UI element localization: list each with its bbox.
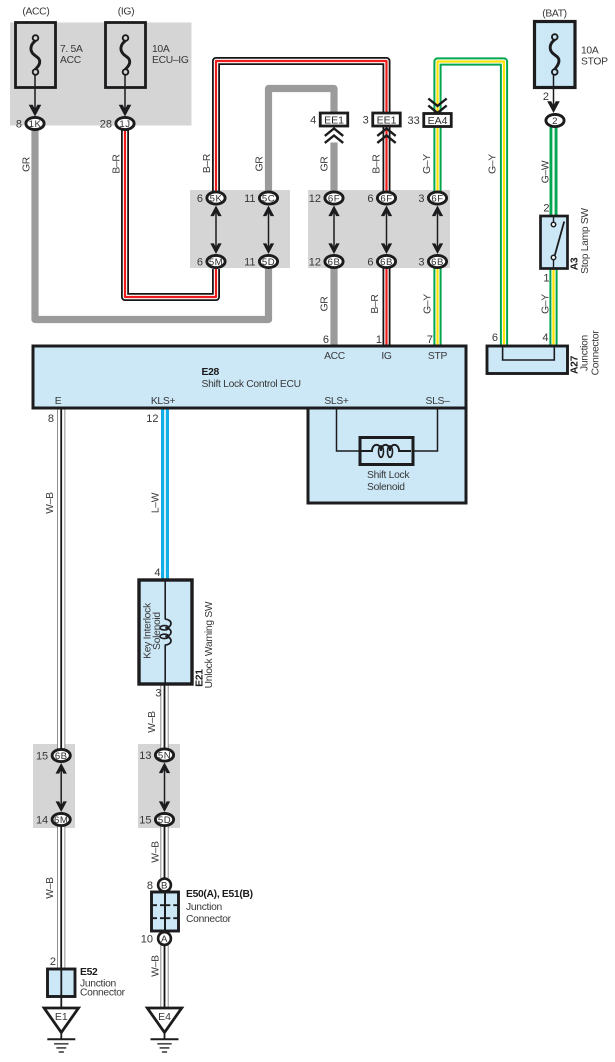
arrow ACC fuse to 1K	[29, 75, 42, 117]
svg-text:6: 6	[492, 332, 498, 344]
svg-text:(IG): (IG)	[118, 7, 135, 18]
svg-text:4: 4	[542, 332, 548, 344]
svg-text:EA4: EA4	[428, 115, 448, 127]
svg-text:13: 13	[139, 750, 151, 762]
stop lamp switch A3 box	[541, 216, 568, 269]
svg-text:2: 2	[50, 956, 56, 968]
wire G-Y from EA4 to 6F	[433, 128, 441, 193]
svg-text:4: 4	[310, 115, 316, 127]
svg-text:8: 8	[48, 413, 54, 425]
svg-text:W–B: W–B	[45, 492, 56, 514]
svg-text:6: 6	[323, 334, 329, 346]
connector block shading (5K/5C 5M/5D)	[190, 190, 290, 268]
svg-text:Connector: Connector	[186, 914, 232, 925]
svg-text:7. 5A: 7. 5A	[60, 44, 83, 55]
svg-text:3: 3	[418, 193, 424, 205]
svg-text:G–Y: G–Y	[541, 294, 552, 314]
connector EE1 (pin 3)	[363, 113, 401, 127]
arrow STOP fuse to connector 2	[547, 75, 560, 113]
svg-text:Connector: Connector	[591, 330, 602, 376]
wire G-Y from stop lamp switch to A27 pin 4	[549, 268, 557, 346]
svg-text:A: A	[161, 934, 168, 945]
wire B-R from 5K to EE1	[216, 61, 387, 192]
svg-text:5D: 5D	[158, 815, 171, 826]
connector 6B (1)	[309, 255, 343, 268]
svg-text:GR: GR	[255, 157, 266, 172]
ECU E28 box	[33, 346, 466, 408]
svg-text:Stop Lamp SW: Stop Lamp SW	[580, 208, 591, 274]
svg-text:1K: 1K	[29, 119, 42, 130]
double arrow 6F-6B (3)	[432, 206, 443, 255]
connector 2 under STOP fuse	[546, 114, 564, 127]
E50/E51 center line	[164, 892, 166, 931]
svg-text:1J: 1J	[119, 119, 130, 130]
svg-text:6B: 6B	[328, 257, 341, 268]
svg-text:W–B: W–B	[151, 841, 162, 863]
connector 5K	[197, 192, 225, 205]
svg-text:12: 12	[309, 193, 321, 205]
svg-text:G–Y: G–Y	[422, 154, 433, 174]
svg-text:5K: 5K	[210, 194, 223, 205]
svg-text:B: B	[161, 880, 168, 891]
E21 coil	[165, 619, 171, 645]
shift lock solenoid housing	[308, 408, 466, 503]
svg-text:12: 12	[146, 413, 158, 425]
svg-text:3: 3	[418, 257, 424, 269]
arrow IG fuse to 1J	[119, 75, 132, 117]
connector 6F (2)	[367, 192, 395, 205]
svg-text:W–B: W–B	[147, 711, 158, 733]
A27 internal bus	[503, 348, 555, 361]
wire GR from 1K to 5D	[35, 130, 269, 320]
connector 5D	[244, 255, 278, 268]
svg-text:12: 12	[309, 257, 321, 269]
wire W-B from E28 pin E to 6B	[57, 408, 65, 749]
wire B-R from EE1 chevron to 6F	[383, 126, 391, 192]
svg-text:SLS+: SLS+	[324, 396, 349, 407]
svg-text:Unlock Warning SW: Unlock Warning SW	[204, 601, 215, 688]
wire B-R from 6B to E28 IG	[383, 268, 391, 346]
svg-text:10A: 10A	[152, 44, 170, 55]
svg-text:6M: 6M	[54, 815, 68, 826]
wire W-B from junction A to E4 ground	[160, 945, 168, 1008]
svg-text:3: 3	[363, 115, 369, 127]
connector block shading (top left)	[10, 23, 192, 126]
svg-text:2: 2	[552, 116, 558, 127]
wire SLS+ to solenoid	[337, 409, 362, 451]
svg-text:10A: 10A	[581, 46, 599, 57]
svg-text:GR: GR	[320, 157, 331, 172]
connector 6B lower	[36, 749, 70, 762]
svg-text:5D: 5D	[262, 257, 275, 268]
svg-text:6B: 6B	[431, 257, 444, 268]
svg-text:6F: 6F	[431, 194, 443, 205]
connector 6B (3)	[418, 255, 446, 268]
svg-text:10: 10	[141, 934, 153, 946]
ground E4	[147, 1008, 181, 1052]
double arrow 5N-5D lower mid	[159, 763, 170, 813]
junction connector E50/E51 box	[152, 892, 179, 931]
chevron under EE1 pin 4	[325, 129, 343, 143]
svg-text:Shift Lock Control ECU: Shift Lock Control ECU	[202, 379, 301, 390]
svg-text:1: 1	[376, 334, 382, 346]
svg-text:2: 2	[543, 203, 549, 215]
svg-text:KLS+: KLS+	[151, 396, 176, 407]
svg-text:2: 2	[543, 91, 549, 103]
double arrow 6F-6B (2)	[381, 206, 392, 255]
svg-text:STP: STP	[428, 351, 448, 362]
ground E1	[44, 1008, 78, 1052]
svg-text:(BAT): (BAT)	[542, 9, 567, 20]
svg-text:Junction: Junction	[186, 902, 223, 913]
svg-text:11: 11	[244, 193, 255, 205]
connector 5C	[244, 192, 278, 205]
connector block shading (6F/6B)	[308, 190, 450, 268]
svg-text:E1: E1	[55, 1011, 68, 1023]
chevron above EA4	[428, 99, 446, 113]
svg-text:GR: GR	[320, 297, 331, 312]
svg-text:1: 1	[543, 273, 549, 285]
svg-text:G–Y: G–Y	[423, 294, 434, 314]
wire GR from EE1 chevron to 6F	[330, 143, 337, 193]
svg-text:Shift Lock: Shift Lock	[367, 470, 410, 481]
double arrow 6F-6B (1)	[328, 206, 339, 255]
connector 1J	[100, 117, 134, 130]
E21 internal wire top	[164, 580, 166, 620]
svg-text:7: 7	[427, 334, 433, 346]
svg-text:6: 6	[367, 257, 373, 269]
connector 1K	[16, 117, 44, 130]
svg-text:ACC: ACC	[324, 351, 346, 362]
svg-text:8: 8	[147, 880, 153, 892]
svg-text:E28: E28	[202, 367, 220, 378]
svg-text:E52: E52	[80, 967, 98, 978]
E52 to ground wire	[60, 997, 62, 1009]
svg-text:Solenoid: Solenoid	[152, 612, 163, 650]
wire G-W from fuse 2 to stop lamp switch	[550, 127, 558, 216]
svg-text:3: 3	[155, 688, 161, 700]
fuse 7.5A ACC	[16, 23, 56, 88]
fuse 10A STOP	[535, 22, 576, 88]
svg-text:5M: 5M	[209, 257, 223, 268]
connector 5M	[197, 255, 225, 268]
svg-text:EE1: EE1	[377, 114, 397, 126]
E50/E51 dashed row line 1	[153, 904, 178, 906]
wire L-W from E28 KLS+ to E21	[161, 408, 169, 580]
svg-text:Solenoid: Solenoid	[367, 482, 405, 493]
wire G-Y from EA4 up and over to A27 pin 6	[438, 62, 505, 347]
fuse 10A ECU-IG	[106, 23, 146, 88]
connector 6M lower	[36, 813, 70, 826]
connector 6F (1)	[309, 192, 343, 205]
solenoid component box	[360, 438, 413, 465]
svg-text:6F: 6F	[380, 194, 392, 205]
E21 internal wire bottom	[164, 645, 166, 685]
svg-text:W–B: W–B	[45, 877, 56, 899]
connector 5D lower	[139, 813, 173, 826]
svg-text:B–R: B–R	[112, 154, 123, 173]
connector EE1 (pin 4)	[310, 113, 348, 127]
junction connector A27 box	[487, 346, 568, 374]
svg-text:E4: E4	[158, 1011, 171, 1023]
svg-text:14: 14	[36, 815, 48, 827]
svg-text:8: 8	[16, 119, 22, 131]
svg-text:33: 33	[408, 115, 420, 127]
svg-text:Connector: Connector	[80, 988, 126, 999]
wire W-B from 5D to junction B	[160, 826, 168, 878]
svg-text:GR: GR	[22, 157, 33, 172]
svg-text:4: 4	[154, 567, 160, 579]
svg-text:E50(A), E51(B): E50(A), E51(B)	[186, 889, 253, 900]
solenoid coil	[362, 445, 412, 451]
connector block shading (6B/6M lower left)	[33, 744, 75, 828]
svg-text:15: 15	[139, 815, 151, 827]
connector 5N lower	[139, 749, 173, 762]
svg-text:B–R: B–R	[370, 294, 381, 313]
svg-text:6B: 6B	[55, 751, 68, 762]
svg-text:11: 11	[244, 257, 255, 269]
svg-text:ECU–IG: ECU–IG	[152, 55, 189, 66]
connector EA4 (pin 33)	[408, 114, 452, 128]
svg-text:B–R: B–R	[372, 154, 383, 173]
svg-text:E: E	[55, 396, 62, 407]
A3 switch contacts	[553, 216, 555, 222]
svg-text:6: 6	[197, 257, 203, 269]
svg-text:A3: A3	[570, 257, 581, 270]
svg-text:Junction: Junction	[580, 334, 591, 371]
svg-text:6: 6	[367, 193, 373, 205]
wire GR from 5C to EE1	[269, 89, 335, 193]
svg-text:IG: IG	[381, 351, 392, 362]
svg-text:6F: 6F	[328, 194, 340, 205]
svg-text:5C: 5C	[262, 194, 275, 205]
connector 6B (2)	[367, 255, 395, 268]
unlock warning switch E21 box	[139, 580, 192, 684]
svg-text:L–W: L–W	[151, 492, 162, 513]
junction node A	[141, 932, 171, 945]
wire GR from 6B to E28 ACC	[330, 268, 337, 346]
wire SLS- to solenoid	[412, 409, 438, 451]
svg-text:5N: 5N	[158, 751, 171, 762]
double arrow 6B-6M lower left	[56, 763, 67, 812]
svg-text:SLS–: SLS–	[426, 396, 451, 407]
connector block shading (5N/5D lower mid)	[138, 744, 180, 828]
junction connector E52 box	[48, 969, 76, 997]
wire G-Y from 6B to E28 STP	[433, 268, 441, 346]
wire W-B from 6M to E52	[57, 826, 65, 969]
wire B-R from 1J to 5M	[125, 130, 216, 297]
svg-text:STOP: STOP	[581, 57, 608, 68]
svg-text:W–B: W–B	[151, 955, 162, 977]
svg-text:ACC: ACC	[60, 55, 82, 66]
svg-text:(ACC): (ACC)	[22, 7, 49, 18]
svg-text:G–W: G–W	[541, 160, 552, 183]
connector 6F (3)	[418, 192, 446, 205]
svg-text:6: 6	[197, 193, 203, 205]
chevron under EE1 pin 3	[377, 129, 395, 143]
wire W-B from E21 to 5N	[160, 684, 168, 749]
E52 center line	[60, 969, 62, 997]
svg-text:6B: 6B	[380, 257, 393, 268]
svg-text:28: 28	[100, 119, 112, 131]
junction node B	[147, 879, 171, 892]
double arrow 5C-5D	[263, 206, 274, 255]
svg-text:B–R: B–R	[202, 154, 213, 173]
svg-text:15: 15	[36, 751, 48, 763]
svg-text:G–Y: G–Y	[488, 154, 499, 174]
E50/E51 dashed row line 2	[153, 917, 178, 919]
double arrow 5K-5M	[210, 206, 221, 255]
svg-text:EE1: EE1	[324, 114, 344, 126]
